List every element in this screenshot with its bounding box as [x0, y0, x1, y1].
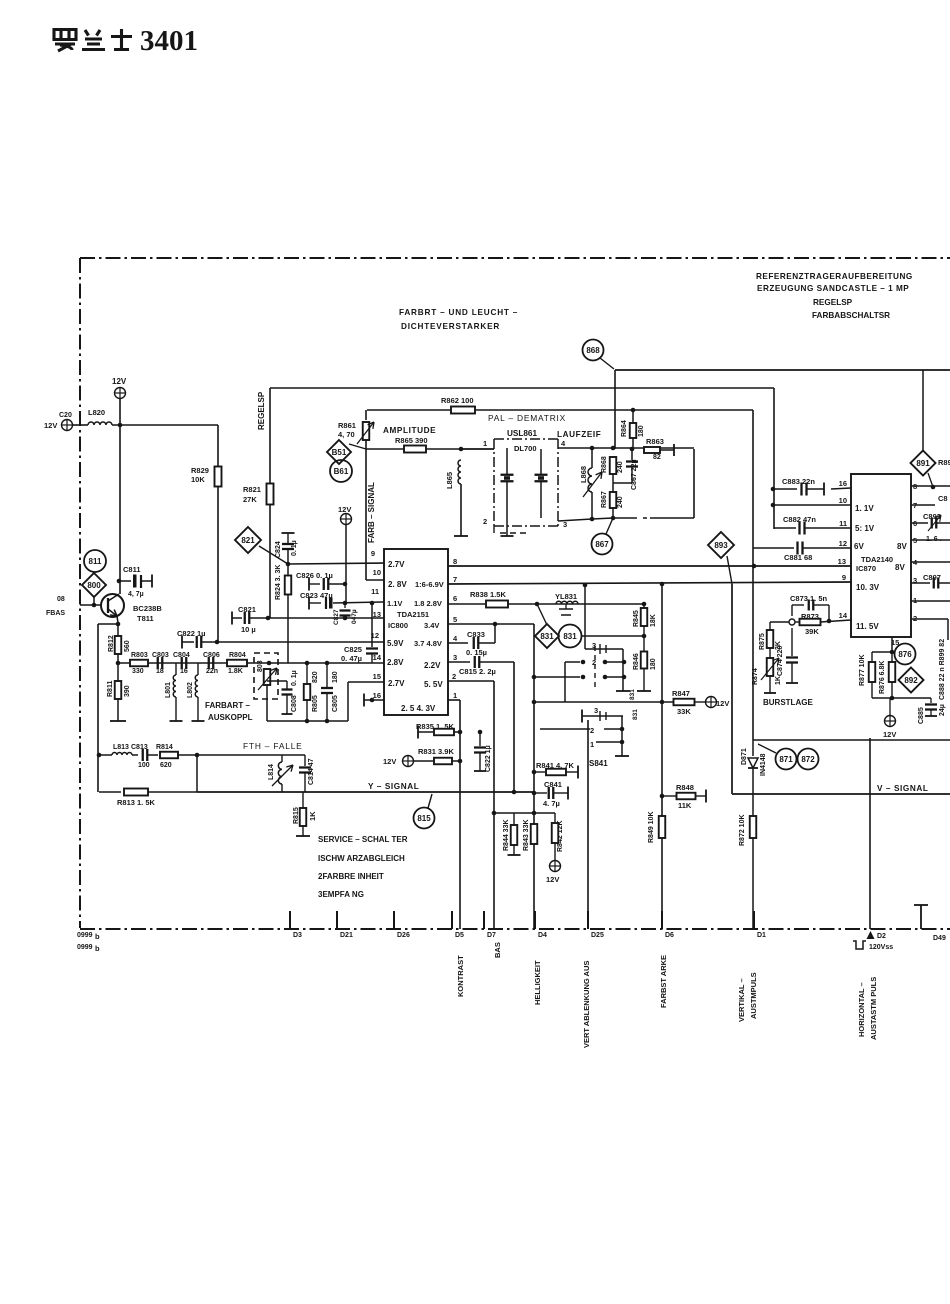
12V supply burst [885, 716, 896, 727]
svg-text:VERTIKAL –: VERTIKAL – [737, 978, 746, 1022]
svg-text:FTH – FALLE: FTH – FALLE [243, 741, 303, 751]
svg-text:b: b [95, 932, 100, 941]
svg-text:C808: C808 [291, 695, 298, 712]
svg-text:C874 220: C874 220 [777, 646, 784, 676]
svg-text:5. 5V: 5. 5V [424, 680, 443, 689]
svg-text:15: 15 [373, 672, 381, 681]
wire R829 down to C822 node [217, 486, 219, 642]
svg-text:2FARBRE INHEIT: 2FARBRE INHEIT [318, 872, 384, 881]
svg-text:AUSKOPPL: AUSKOPPL [208, 713, 253, 722]
capacitor C833 0.15u on pin4 [448, 642, 468, 644]
svg-text:831: 831 [632, 709, 639, 720]
svg-text:C815 2. 2µ: C815 2. 2µ [459, 667, 496, 676]
svg-text:R824 3. 3K: R824 3. 3K [275, 565, 282, 600]
svg-text:FARBST ARKE: FARBST ARKE [659, 955, 668, 1008]
wire y=410 with R862 [367, 409, 753, 411]
svg-text:TDA2140: TDA2140 [861, 555, 893, 564]
svg-text:REGELSP: REGELSP [813, 298, 853, 307]
wire pin8 right [911, 485, 950, 487]
svg-text:891: 891 [916, 459, 930, 468]
svg-text:C813: C813 [131, 744, 148, 751]
wire delay line pin4 to L868 rail [558, 447, 592, 449]
svg-text:R829: R829 [191, 466, 209, 475]
svg-text:R804: R804 [229, 652, 246, 659]
svg-text:14: 14 [839, 611, 848, 620]
svg-text:2.7V: 2.7V [388, 679, 405, 688]
svg-text:C883 22n: C883 22n [782, 477, 815, 486]
diamond 821 [235, 527, 261, 553]
svg-text:REFERENZTRAGERAUFBEREITUNG: REFERENZTRAGERAUFBEREITUNG [756, 272, 913, 281]
svg-text:R844 33K: R844 33K [503, 819, 510, 851]
wire pin2 down BAS column [448, 680, 494, 682]
transistor T811 BC238B [101, 594, 124, 617]
svg-text:876: 876 [898, 650, 912, 659]
svg-text:C825: C825 [344, 645, 362, 654]
svg-text:815: 815 [417, 814, 431, 823]
bottom connector ticks and labels [289, 911, 291, 929]
svg-text:R89: R89 [938, 458, 950, 467]
svg-text:871: 871 [779, 755, 793, 764]
svg-text:2: 2 [483, 517, 487, 526]
svg-text:IC800: IC800 [388, 621, 408, 630]
svg-text:16: 16 [839, 479, 847, 488]
svg-text:2.7V: 2.7V [388, 560, 405, 569]
switch 831 upper bracket [581, 635, 644, 637]
wire C825 column [371, 603, 373, 647]
wire BURSTLAGE box left edge [731, 584, 733, 794]
svg-text:AUSTASTM PULS: AUSTASTM PULS [869, 977, 878, 1040]
wire x=774 vertical down to C882 [773, 388, 775, 529]
svg-text:4. 7µ: 4. 7µ [543, 799, 560, 808]
svg-text:TDA2151: TDA2151 [397, 610, 429, 619]
circle B61 [330, 460, 352, 482]
svg-text:1K: 1K [775, 676, 782, 685]
svg-text:L820: L820 [88, 408, 105, 417]
wire pin4 right [911, 561, 950, 563]
wire pin4 rail to R868/R864 [592, 447, 694, 449]
svg-text:12V: 12V [338, 505, 351, 514]
circle 815 callout [414, 808, 435, 829]
border dash-dot frame [80, 257, 950, 259]
wire pin10 [771, 503, 776, 508]
svg-text:BAS: BAS [493, 942, 502, 958]
svg-text:9: 9 [842, 573, 846, 582]
circles 871 872 callouts [758, 744, 776, 753]
wire pin3 down to Y-signal [513, 662, 515, 792]
waveform 120Vss [853, 941, 866, 949]
svg-text:R821: R821 [243, 485, 261, 494]
svg-text:L801: L801 [165, 682, 172, 698]
svg-text:D3: D3 [293, 932, 302, 939]
svg-text:5.9V: 5.9V [387, 639, 404, 648]
wire bottom rail pal-dematrix [558, 519, 592, 521]
diamond 893 [708, 532, 734, 558]
svg-text:1.1V: 1.1V [387, 599, 402, 608]
svg-text:12V: 12V [883, 730, 896, 739]
svg-text:D871: D871 [741, 748, 748, 765]
svg-text:FARBART –: FARBART – [205, 701, 250, 710]
svg-text:4, 7µ: 4, 7µ [128, 591, 144, 598]
svg-text:820: 820 [312, 671, 319, 683]
wire pin5 right [911, 539, 950, 541]
trimmer 803 dashed box [254, 653, 278, 699]
svg-text:180: 180 [332, 671, 339, 683]
switch 831 common vertical [622, 649, 624, 691]
svg-text:330: 330 [132, 668, 144, 675]
svg-text:2: 2 [452, 672, 456, 681]
svg-text:7: 7 [453, 575, 457, 584]
svg-text:4, 70: 4, 70 [338, 430, 355, 439]
svg-text:24µ: 24µ [939, 704, 946, 716]
wire y=370 to right edge [615, 369, 950, 371]
svg-text:L865: L865 [445, 472, 454, 489]
svg-text:C805: C805 [332, 695, 339, 712]
svg-text:B61: B61 [334, 467, 349, 476]
diamond B51 [327, 440, 351, 464]
svg-text:12V: 12V [112, 377, 127, 386]
svg-text:16: 16 [180, 668, 188, 675]
svg-text:12: 12 [371, 631, 379, 640]
svg-text:12V: 12V [383, 757, 396, 766]
svg-text:0999: 0999 [77, 932, 93, 939]
svg-text:R813 1. 5K: R813 1. 5K [117, 798, 156, 807]
svg-text:10: 10 [839, 496, 847, 505]
svg-text:3.7 4.8V: 3.7 4.8V [414, 639, 442, 648]
svg-text:5: 1V: 5: 1V [855, 524, 875, 533]
svg-text:867: 867 [595, 540, 609, 549]
svg-text:1.8K: 1.8K [228, 668, 243, 675]
svg-text:39K: 39K [805, 627, 819, 636]
svg-text:11: 11 [371, 587, 379, 596]
svg-text:1: 1 [483, 439, 487, 448]
svg-text:C811: C811 [123, 565, 141, 574]
svg-text:82: 82 [653, 454, 661, 461]
svg-text:831: 831 [629, 689, 636, 700]
wire pin15 rail [348, 681, 384, 683]
delay line USL861 dash-dot box [494, 439, 558, 526]
wire pin7 right C89x [911, 504, 935, 506]
wire row y=702 with R847 [564, 662, 566, 702]
svg-text:L814: L814 [268, 764, 275, 780]
wire 12V column down to transistor area [119, 398, 121, 594]
svg-text:HORIZONTAL –: HORIZONTAL – [857, 982, 866, 1037]
svg-text:R803: R803 [131, 652, 148, 659]
svg-text:0. 47µ: 0. 47µ [341, 654, 362, 663]
svg-text:V – SIGNAL: V – SIGNAL [877, 784, 929, 793]
svg-text:D2: D2 [877, 933, 886, 940]
svg-text:D6: D6 [665, 932, 674, 939]
svg-text:D21: D21 [340, 932, 353, 939]
svg-text:3: 3 [594, 706, 598, 715]
svg-text:IN4148: IN4148 [760, 753, 767, 776]
svg-text:C881 68: C881 68 [784, 553, 812, 562]
circle B11 callout [84, 550, 106, 572]
resistor R813 1.5K loop [99, 791, 121, 793]
svg-text:2: 2 [590, 726, 594, 735]
svg-text:R865 390: R865 390 [395, 436, 428, 445]
wire pin9 left [288, 563, 384, 564]
diamond 892 [899, 668, 924, 693]
svg-text:C888 22 n R899 82: C888 22 n R899 82 [939, 639, 946, 700]
svg-text:L868: L868 [579, 466, 588, 483]
svg-text:12: 12 [839, 539, 847, 548]
svg-text:T811: T811 [137, 614, 154, 623]
switch S841 common [621, 716, 623, 756]
svg-text:1K: 1K [308, 811, 317, 821]
svg-text:R846: R846 [633, 653, 640, 670]
svg-text:DL700: DL700 [514, 444, 537, 453]
svg-text:3EMPFA NG: 3EMPFA NG [318, 890, 364, 899]
svg-text:6V: 6V [854, 542, 864, 551]
svg-text:831: 831 [563, 632, 577, 641]
op-amp IC870 TDA2140 box [851, 474, 911, 637]
wire from 2V input through border [73, 424, 88, 426]
wire pin8 to IC870 pin13 [448, 565, 851, 567]
svg-text:D1: D1 [757, 932, 766, 939]
svg-text:D49: D49 [933, 935, 946, 942]
svg-text:REGELSP: REGELSP [257, 391, 266, 430]
wire vertical x=615 from y370 to amplitude wire [614, 370, 616, 449]
svg-text:240: 240 [617, 461, 624, 473]
svg-text:868: 868 [586, 346, 600, 355]
svg-text:047µ: 047µ [351, 609, 358, 624]
switch S841 bracket [581, 710, 583, 723]
svg-text:180: 180 [650, 658, 657, 670]
svg-text:R874: R874 [752, 668, 759, 685]
svg-text:10K: 10K [191, 475, 205, 484]
svg-text:10 µ: 10 µ [241, 625, 256, 634]
wire bottom rail FARBART [267, 720, 348, 722]
wire FTH row y=755 [99, 754, 112, 756]
svg-text:08: 08 [57, 596, 65, 603]
svg-text:22n: 22n [206, 668, 218, 675]
svg-text:6: 6 [453, 594, 457, 603]
svg-text:R872 10K: R872 10K [739, 814, 746, 846]
svg-text:R843 33K: R843 33K [523, 819, 530, 851]
svg-text:R805: R805 [312, 695, 319, 712]
wire delay line pin1 [461, 448, 494, 450]
svg-text:100: 100 [138, 762, 150, 769]
svg-text:18K: 18K [650, 614, 657, 627]
svg-text:C8: C8 [938, 494, 948, 503]
svg-text:R831 3.9K: R831 3.9K [418, 747, 454, 756]
svg-text:120Vss: 120Vss [869, 944, 893, 951]
diamond 831 [537, 604, 547, 625]
IC870 pin15 components [891, 637, 893, 652]
svg-text:2. 8V: 2. 8V [388, 580, 407, 589]
svg-text:IC870: IC870 [856, 564, 876, 573]
svg-text:12V: 12V [546, 875, 559, 884]
svg-text:ERZEUGUNG SANDCASTLE – 1 MP: ERZEUGUNG SANDCASTLE – 1 MP [757, 284, 909, 293]
svg-text:ISCHW ARZABGLEICH: ISCHW ARZABGLEICH [318, 854, 405, 863]
capacitor C881 68 [753, 547, 794, 549]
svg-text:821: 821 [241, 536, 255, 545]
svg-text:13: 13 [373, 610, 381, 619]
wire pin2 right [911, 618, 948, 620]
svg-text:14: 14 [373, 653, 382, 662]
delay line pin2 stub [493, 526, 495, 533]
svg-text:C827: C827 [333, 609, 340, 625]
switch 831 contact row 1 [536, 676, 580, 678]
circle 831 [559, 625, 582, 648]
svg-text:3.4V: 3.4V [424, 621, 439, 630]
IC800 pin16 stub [363, 694, 365, 707]
wire V-SIGNAL box bottom [732, 793, 950, 795]
svg-text:FBAS: FBAS [46, 610, 65, 617]
svg-text:892: 892 [904, 676, 918, 685]
title 罗兰士 3401 (hanzi drawn as paths) [54, 29, 132, 51]
svg-text:1. 1V: 1. 1V [855, 504, 874, 513]
wire column x=662 [661, 584, 663, 929]
svg-text:5: 5 [453, 615, 457, 624]
svg-text:R876 6.8K: R876 6.8K [879, 661, 886, 694]
trimmer 803 potentiometer [264, 669, 271, 685]
wire FARB-SIGNAL vertical to pin10 [365, 449, 367, 580]
wire amplitude y=449 [365, 440, 367, 449]
svg-text:SERVICE – SCHAL TER: SERVICE – SCHAL TER [318, 835, 408, 844]
svg-text:C823 47µ: C823 47µ [300, 591, 333, 600]
wire R821 down to C821 node [269, 504, 271, 618]
circle 867 callout [606, 518, 613, 534]
svg-text:D4: D4 [538, 932, 547, 939]
svg-text:R864: R864 [621, 420, 628, 437]
wire pin7 to IC870 pin9 [448, 582, 851, 584]
12V supply R847 [706, 697, 717, 708]
svg-text:R875: R875 [759, 633, 766, 650]
diamond 800 [82, 573, 106, 597]
svg-text:800: 800 [87, 581, 101, 590]
svg-text:VERT ABLENKUNG AUS: VERT ABLENKUNG AUS [582, 961, 591, 1048]
svg-text:R861: R861 [338, 421, 356, 430]
wire L820 to R829 corner [112, 424, 218, 426]
svg-text:2. 5 4. 3V: 2. 5 4. 3V [401, 704, 436, 713]
svg-text:BURSTLAGE: BURSTLAGE [763, 698, 813, 707]
svg-text:180: 180 [638, 425, 645, 437]
switch 831 dashed actuator [594, 646, 596, 691]
svg-text:10: 10 [373, 568, 381, 577]
svg-text:R838 1.5K: R838 1.5K [470, 590, 506, 599]
svg-text:2.8V: 2.8V [387, 658, 404, 667]
svg-text:9: 9 [371, 549, 375, 558]
svg-text:L813: L813 [113, 744, 129, 751]
svg-text:R811: R811 [107, 681, 114, 697]
svg-text:R877 10K: R877 10K [859, 654, 866, 686]
svg-text:D25: D25 [591, 932, 604, 939]
circle 876 callout [895, 644, 916, 665]
svg-text:18: 18 [156, 668, 164, 675]
svg-text:AUSTMPULS: AUSTMPULS [749, 972, 758, 1019]
svg-text:1:6-6.9V: 1:6-6.9V [415, 580, 444, 589]
svg-text:831: 831 [540, 632, 554, 641]
wire switch common to pin7 wire [584, 585, 586, 636]
svg-text:0. 1µ: 0. 1µ [291, 670, 298, 686]
svg-text:33K: 33K [677, 707, 691, 716]
svg-text:R867: R867 [601, 491, 608, 508]
svg-text:3: 3 [453, 653, 457, 662]
svg-text:YL831: YL831 [555, 592, 577, 601]
wire REGELSP vertical x=270 [269, 388, 271, 484]
wire corner x=694 [693, 449, 695, 518]
svg-text:L802: L802 [187, 682, 194, 698]
wire D2 column [869, 738, 871, 929]
svg-text:PAL – DEMATRIX: PAL – DEMATRIX [488, 413, 566, 423]
svg-text:C806: C806 [203, 652, 220, 659]
svg-text:240: 240 [617, 496, 624, 508]
svg-text:390: 390 [124, 685, 131, 697]
svg-text:560: 560 [124, 640, 131, 652]
svg-text:1: 1 [590, 740, 594, 749]
svg-text:C833: C833 [467, 630, 485, 639]
wire emitter down [117, 616, 118, 623]
svg-text:R862 100: R862 100 [441, 396, 474, 405]
wire FARBART row y=663 [118, 662, 384, 664]
svg-text:8: 8 [453, 557, 457, 566]
svg-text:11. 5V: 11. 5V [856, 622, 879, 631]
svg-text:893: 893 [714, 541, 728, 550]
svg-text:12V: 12V [44, 421, 57, 430]
svg-text:C822 1µ: C822 1µ [485, 745, 492, 772]
svg-text:USL861: USL861 [507, 429, 537, 438]
svg-text:11K: 11K [678, 801, 692, 810]
svg-text:27K: 27K [243, 495, 257, 504]
delay line internal element right [540, 449, 542, 474]
svg-text:R868: R868 [601, 456, 608, 473]
svg-text:D26: D26 [397, 932, 410, 939]
svg-text:13: 13 [838, 557, 846, 566]
svg-text:0999: 0999 [77, 944, 93, 951]
svg-text:12V: 12V [716, 699, 729, 708]
svg-text:FARBABSCHALTSR: FARBABSCHALTSR [812, 311, 890, 320]
wire pin5 to HELLIGKEIT column [448, 623, 534, 625]
svg-text:R845: R845 [633, 610, 640, 627]
svg-text:C824: C824 [275, 541, 282, 558]
svg-text:D7: D7 [487, 932, 496, 939]
delay line internal element left [506, 448, 508, 474]
wire pin1 right [911, 600, 950, 602]
diamond 891 [922, 370, 924, 451]
wire 12V rail pin15 area [872, 697, 931, 699]
svg-text:R814: R814 [156, 744, 173, 751]
svg-text:HELLIGKEIT: HELLIGKEIT [533, 960, 542, 1005]
svg-text:DICHTEVERSTARKER: DICHTEVERSTARKER [401, 322, 500, 331]
svg-text:620: 620 [160, 762, 172, 769]
svg-text:8V: 8V [895, 563, 905, 572]
svg-text:1.8 2.8V: 1.8 2.8V [414, 599, 442, 608]
circle 868 callout [583, 340, 604, 361]
svg-text:10. 3V: 10. 3V [856, 583, 880, 592]
wire long horizontal y=388 [270, 387, 774, 389]
svg-text:872: 872 [801, 755, 815, 764]
svg-text:16: 16 [373, 691, 381, 700]
svg-text:11: 11 [839, 519, 847, 528]
svg-text:C20: C20 [59, 412, 72, 419]
wire HELLIGKEIT column x=534 [533, 624, 535, 929]
svg-text:1: 1 [453, 691, 457, 700]
svg-text:BC238B: BC238B [133, 604, 162, 613]
svg-text:R848: R848 [676, 783, 694, 792]
wire R842/R843/R844 tee [532, 811, 537, 816]
svg-text:R847: R847 [672, 689, 690, 698]
wire pin1 down KONTRAST column [448, 699, 460, 701]
svg-text:811: 811 [89, 557, 102, 566]
connector D2 triangle [867, 931, 875, 939]
svg-text:AMPLITUDE: AMPLITUDE [383, 426, 436, 435]
capacitor C815 2.2u on pin3 [448, 661, 470, 663]
svg-text:C803: C803 [152, 652, 169, 659]
connector tick with bar [920, 905, 922, 929]
svg-text:R863: R863 [646, 437, 664, 446]
svg-text:3401: 3401 [140, 25, 198, 57]
